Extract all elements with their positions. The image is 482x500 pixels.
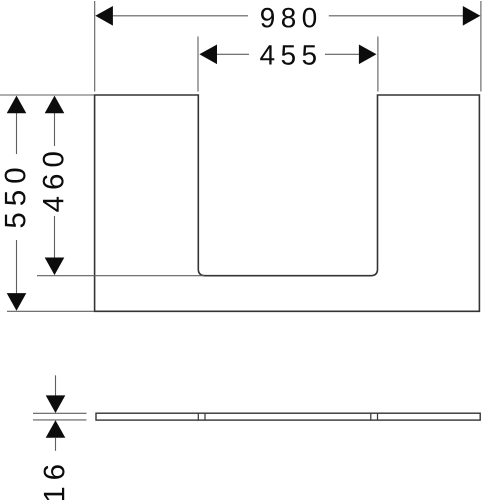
arrow 16 up	[46, 420, 66, 438]
arrow 460 top	[45, 96, 65, 114]
extension line 980 left	[94, 1, 96, 92]
dimension line 460	[54, 113, 56, 147]
extension line 16 top	[33, 412, 87, 414]
dimension line 16 lower	[55, 438, 57, 451]
label 550	[5, 169, 26, 228]
arrow 980 right	[463, 6, 481, 26]
dimension line 980	[113, 15, 248, 17]
arrow 455 left	[199, 45, 217, 65]
extension line 455 left	[197, 37, 199, 92]
arrow 980 left	[95, 6, 113, 26]
side view slab	[96, 413, 480, 420]
label 16	[44, 465, 65, 500]
arrow 16 down	[46, 395, 66, 413]
arrow 550 top	[7, 96, 27, 114]
label 460	[43, 152, 64, 211]
arrow 455 right	[359, 45, 377, 65]
label 455	[260, 45, 316, 65]
extension line 460 bottom (notch depth)	[37, 275, 204, 277]
extension line left top (for 550/460)	[0, 94, 94, 96]
extension line 980 right	[480, 1, 482, 92]
arrow 550 bottom	[7, 293, 27, 311]
label 980	[261, 8, 316, 28]
dimension line 16 upper	[55, 375, 57, 396]
dimension line 550	[16, 113, 18, 155]
arrow 460 bottom	[45, 258, 65, 276]
extension line 455 right	[377, 37, 379, 92]
extension line 550 bottom	[7, 310, 94, 312]
side view notch projection lines	[197, 413, 199, 420]
dimension line 455	[217, 53, 249, 55]
extension line 16 bottom	[33, 419, 87, 421]
part outline top view	[95, 95, 480, 311]
